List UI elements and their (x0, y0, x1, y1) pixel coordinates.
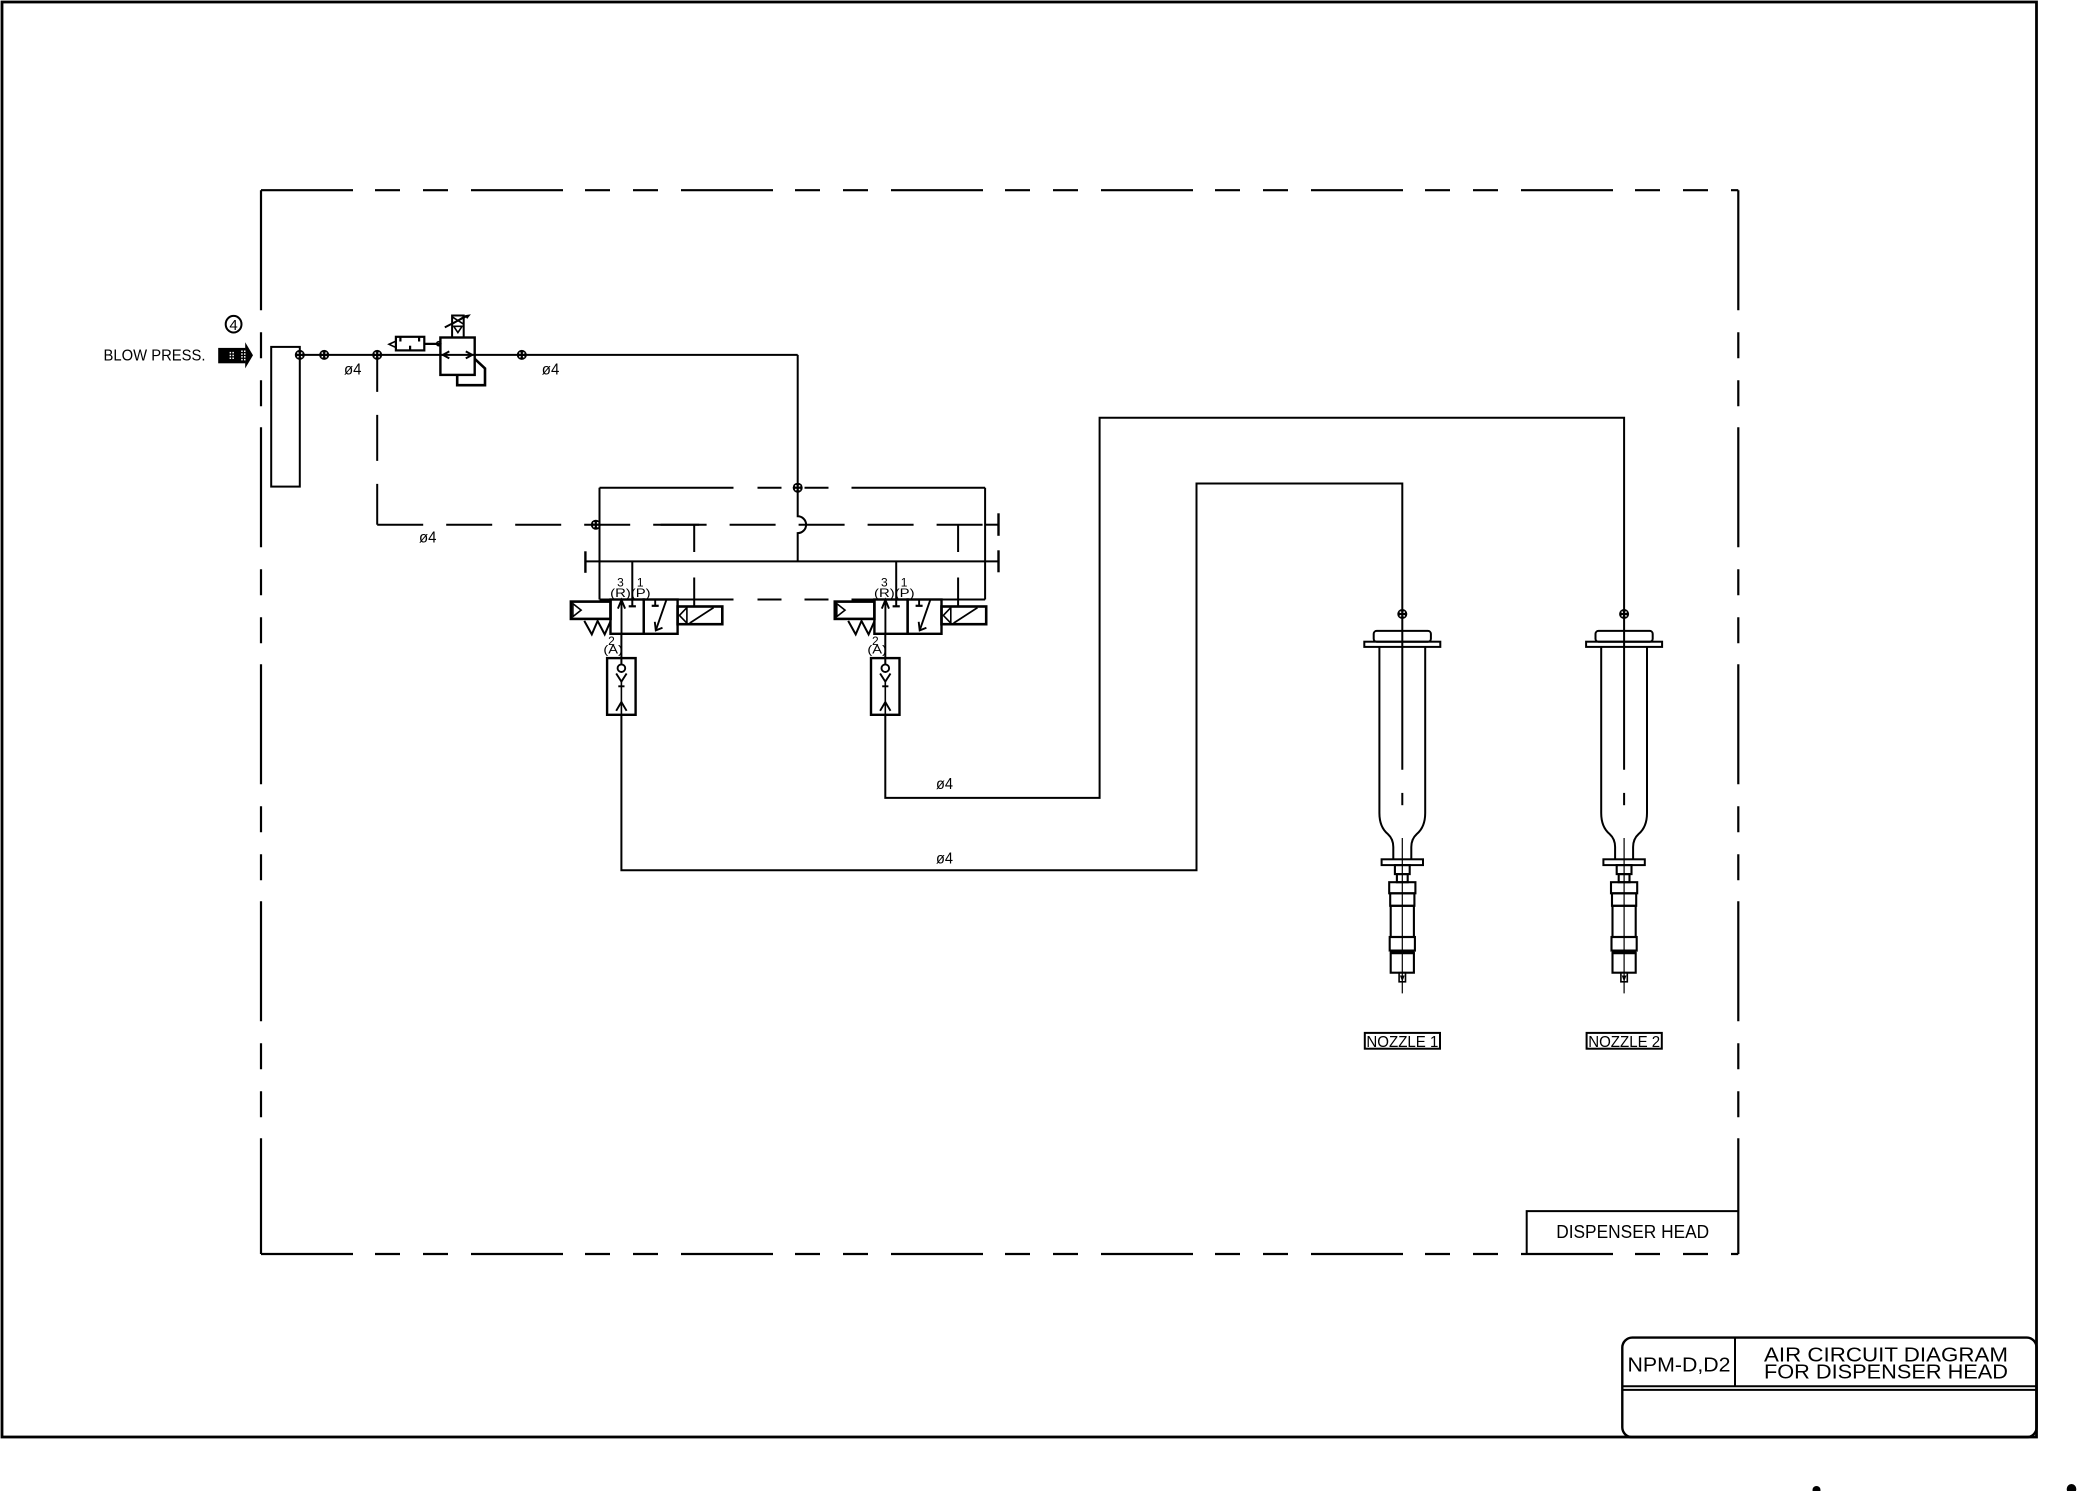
label ø4 after regulator (542, 362, 560, 379)
junction dot above syringe 2 (1619, 609, 1629, 619)
balloon number 4 (226, 316, 242, 334)
label ø4 inlet (344, 362, 362, 379)
valve V1 body (3/2 solenoid valve) (611, 600, 678, 634)
junction dot pilot at manifold (591, 520, 601, 530)
wire: pilot dashed line (ø4) (377, 355, 998, 525)
valve V2 pilot actuator box (835, 602, 875, 619)
svg-text:FOR DISPENSER HEAD: FOR DISPENSER HEAD (1764, 1361, 2008, 1384)
junction dot (372, 350, 382, 360)
svg-text:NOZZLE 2: NOZZLE 2 (1588, 1034, 1660, 1051)
svg-text:(R)(P): (R)(P) (874, 586, 915, 600)
supply rail (585, 550, 998, 573)
label ø4 nozzle 2 line (936, 776, 953, 793)
valve V2 crossed flow path (actuated box) (919, 600, 931, 631)
junction dot (295, 350, 305, 360)
valve V2 body (3/2 solenoid valve) (874, 600, 941, 634)
valve V2 port labels (867, 575, 914, 656)
svg-text:NOZZLE 1: NOZZLE 1 (1366, 1034, 1438, 1051)
label ø4 nozzle 1 line (936, 850, 953, 867)
input arrow BLOW PRESS (218, 342, 253, 368)
label ø4 pilot (419, 529, 437, 546)
regulator R1 (440, 314, 485, 385)
svg-text:ø4: ø4 (542, 362, 560, 379)
check valve CV1 (607, 658, 636, 715)
title block drawing name (1764, 1343, 2008, 1383)
junction dot (517, 350, 527, 360)
svg-text:ø4: ø4 (936, 850, 953, 867)
title block (1622, 1338, 2036, 1438)
svg-text:4: 4 (229, 317, 237, 334)
valve V1 blocked port 1 symbol (652, 600, 659, 606)
valve V2 port 1 supply stub with blocked symbol (893, 561, 900, 606)
valve V1 port labels (603, 575, 650, 656)
valve V2 solenoid coil (942, 607, 987, 625)
svg-text:ø4: ø4 (419, 529, 437, 546)
valve V1 solenoid coil (678, 607, 723, 625)
wire: supply drop into manifold with crossover hop (798, 355, 806, 562)
check valve CV2 (871, 658, 900, 715)
valve V1 crossed flow path (actuated box) (655, 600, 667, 631)
junction dot above syringe 1 (1397, 609, 1407, 619)
stray mark 1 (1813, 1486, 1821, 1491)
manifold block boundary (phantom dashed) (600, 488, 986, 600)
valve V1 pilot supply stub (693, 525, 695, 607)
label NOZZLE 1 (1365, 1033, 1440, 1051)
valve V1 port 1 supply stub with blocked symbol (629, 561, 636, 606)
syringe 1 (1364, 631, 1440, 994)
valve V2 pilot supply stub (957, 525, 959, 607)
dispenser head enclosure (phantom dashed boundary) (261, 190, 1738, 1254)
wire: nozzle 1 tube run (621, 484, 1402, 871)
valve V1 pilot actuator box (571, 602, 611, 619)
valve V1 return spring (584, 621, 610, 635)
valve V2 flow path arrow 2-3 (882, 600, 889, 634)
svg-text:NPM-D,D2: NPM-D,D2 (1628, 1354, 1731, 1377)
svg-text:ø4: ø4 (344, 362, 362, 379)
inlet port block (271, 347, 300, 487)
label NOZZLE 2 (1587, 1033, 1662, 1051)
svg-text:BLOW PRESS.: BLOW PRESS. (104, 348, 206, 365)
svg-text:ø4: ø4 (936, 776, 953, 793)
svg-text:(R)(P): (R)(P) (610, 586, 651, 600)
svg-text:DISPENSER HEAD: DISPENSER HEAD (1556, 1222, 1709, 1242)
stray mark 2 (2067, 1484, 2077, 1491)
junction dot supply at manifold top (793, 483, 803, 493)
valve V2 return spring (848, 621, 874, 635)
label BLOW PRESS. (104, 348, 206, 365)
junction dot (319, 350, 329, 360)
valve V2 blocked port 1 symbol (916, 600, 923, 606)
dispenser head label box (1527, 1211, 1739, 1254)
svg-text:(A): (A) (603, 643, 623, 657)
wire: nozzle 2 tube run (885, 418, 1624, 805)
pilot line end plug (997, 513, 999, 536)
title block model text NPM-D,D2 (1628, 1354, 1731, 1377)
syringe 2 (1586, 631, 1662, 994)
wire valve V2 port 2 to check valve (884, 634, 886, 658)
wire valve V1 port 2 to check valve (620, 634, 622, 658)
wire: inlet supply line (300, 354, 798, 356)
svg-text:(A): (A) (867, 643, 887, 657)
valve V1 flow path arrow 2-3 (618, 600, 625, 634)
filter F1 (389, 337, 441, 351)
